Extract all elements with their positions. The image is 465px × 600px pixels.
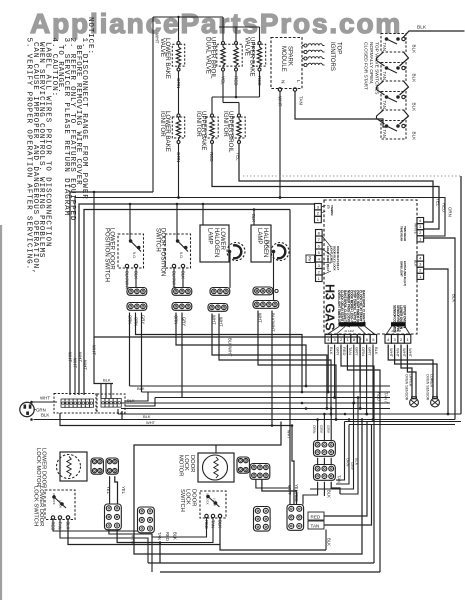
svg-text:N.O.: N.O.	[179, 252, 183, 259]
svg-text:TAN: TAN	[337, 475, 342, 483]
connector C12 door lock motor	[250, 464, 270, 480]
wire left drop from top bus	[152, 17, 154, 192]
svg-text:J2 14M: J2 14M	[391, 329, 401, 333]
label BLK on bus M7	[143, 414, 151, 419]
svg-text:WHT: WHT	[287, 485, 292, 495]
svg-text:N: N	[280, 80, 286, 84]
wire orn2 to bus	[136, 313, 304, 394]
svg-text:BLK: BLK	[173, 532, 178, 540]
connector C9 lower door lock motor	[91, 458, 103, 474]
svg-text:BLK: BLK	[266, 240, 271, 248]
wire halogen lamp down	[273, 253, 275, 301]
wires lower door lock connector down	[109, 529, 160, 572]
door lock assembly box	[134, 422, 362, 555]
resistor UPPER BROIL IGNITOR	[222, 111, 245, 153]
label WHT on bus M8	[146, 420, 156, 425]
svg-text:RED: RED	[342, 347, 347, 356]
svg-text:IGNITOR: IGNITOR	[159, 111, 166, 137]
keypad legend text block 2	[391, 305, 407, 333]
svg-text:GRY: GRY	[350, 462, 354, 471]
labels WHT YEL/RED middle	[287, 484, 299, 502]
label TOP VALVE SWITCHES NORMALLY OPEN CLOSED FOR START	[362, 42, 379, 94]
wire P6 pin1 right exit	[424, 269, 450, 415]
switch LOWER DOOR POSITION SWITCH	[104, 228, 144, 282]
labels WHT TAN RED BLK lower cluster	[131, 532, 178, 545]
svg-text:GRY: GRY	[367, 347, 372, 356]
spark module top ignitor outputs	[302, 44, 325, 67]
wire BLK switch to P4	[325, 530, 327, 551]
wire bus H3	[79, 204, 314, 395]
wires G to F	[318, 458, 332, 465]
svg-text:POSITION SWITCH: POSITION SWITCH	[104, 228, 110, 282]
switch top valve SW2	[381, 63, 406, 82]
wire orn3 to bus	[176, 313, 307, 388]
label GRN at power cord	[34, 408, 46, 413]
svg-text:VALVE: VALVE	[159, 38, 166, 57]
svg-text:TAN: TAN	[382, 130, 387, 138]
svg-text:GRY: GRY	[319, 425, 323, 434]
svg-text:WHT: WHT	[389, 348, 394, 358]
labels P2 pin functions	[322, 236, 340, 275]
svg-text:WHT: WHT	[73, 358, 78, 368]
sensor upper oven RT1	[410, 397, 419, 407]
wire wht vertical x290	[289, 210, 291, 506]
svg-text:RW: RW	[308, 256, 312, 261]
label BLK/WHT long	[228, 338, 233, 357]
svg-text:SWITCH: SWITCH	[155, 228, 161, 252]
labels wire colors under row2 lamp1	[212, 315, 224, 327]
wire chain SW1 to SW2	[377, 52, 409, 66]
wires F down	[303, 482, 340, 505]
svg-text:5. VERIFY PROPER OPERATION AFT: 5. VERIFY PROPER OPERATION AFTER SERVICI…	[25, 38, 33, 271]
control board outline H3 GAS	[324, 200, 417, 334]
svg-text:BLK: BLK	[374, 347, 379, 355]
svg-text:ORN: ORN	[345, 458, 349, 467]
svg-text:GRY: GRY	[355, 347, 360, 356]
svg-text:NORMALLY OPEN,: NORMALLY OPEN,	[368, 42, 374, 84]
label WHT near P4 feed	[287, 430, 291, 439]
label WHT top left wire	[155, 33, 160, 44]
svg-text:GRY: GRY	[326, 425, 330, 434]
wire dual valve tops	[223, 27, 236, 42]
wire top bus	[153, 17, 260, 27]
switch top valve SW1	[381, 34, 406, 53]
spark module U1	[271, 38, 302, 92]
fan lines keypad block 2 to J2	[386, 327, 410, 335]
label WHITE near P5	[414, 223, 418, 235]
wire long vertical x94	[93, 191, 96, 337]
svg-text:WHT: WHT	[278, 96, 283, 107]
svg-text:IGNITOR: IGNITOR	[222, 111, 229, 137]
connector ROW small box	[306, 255, 315, 263]
svg-text:HALOGEN: HALOGEN	[213, 228, 219, 257]
svg-text:LAMP: LAMP	[256, 228, 262, 244]
svg-text:YEL/RED: YEL/RED	[294, 484, 299, 502]
svg-text:WHITE: WHITE	[414, 223, 418, 235]
labels WHT on left vertical wires	[68, 345, 97, 370]
wires lower door position switch to connector	[127, 268, 136, 288]
wire J2 pin3 to upper oven sensor	[401, 345, 412, 399]
node top bus to lower bake valve	[177, 16, 179, 42]
wire bottom run 563	[148, 562, 374, 564]
labels P3 pin functions	[321, 205, 334, 215]
wires door lock switch out	[152, 518, 326, 550]
dotted fold line	[243, 175, 461, 177]
labels wire colors under row2 mid	[174, 315, 187, 326]
sensor lower oven RT2	[431, 397, 440, 407]
label BLK right of SW1	[412, 45, 417, 55]
svg-text:TIME REAR: TIME REAR	[400, 226, 404, 242]
svg-text:WHT: WHT	[78, 352, 83, 362]
wire bus M3	[155, 397, 390, 399]
valve UPPER BAKE VALVE	[244, 37, 266, 77]
svg-text:BLK: BLK	[412, 103, 417, 113]
wires bus to connector G	[318, 407, 333, 440]
wire red ignitor to right strip	[212, 144, 439, 230]
svg-text:IGNITORS: IGNITORS	[329, 42, 335, 71]
connector P4 middle	[287, 505, 304, 531]
lamp LOWER HALOGEN LAMP	[200, 225, 245, 262]
svg-text:BLK: BLK	[143, 414, 151, 419]
svg-text:BLK: BLK	[412, 74, 417, 84]
svg-text:WHT: WHT	[68, 352, 73, 362]
label BLK on tb wire	[137, 386, 145, 391]
svg-text:TAN: TAN	[382, 43, 387, 51]
label TOP IGNITORS	[329, 42, 342, 71]
labels ORN GRY near connector G feeds	[312, 425, 330, 434]
wire J1 pin4 TAN long to door lock	[347, 345, 380, 573]
label TAN box	[308, 521, 324, 529]
wire gry2 to bus	[181, 313, 183, 398]
svg-text:RED: RED	[377, 392, 382, 401]
wire wht1 to bus	[212, 314, 328, 410]
wires terminal block 2 right exits	[118, 392, 155, 420]
wire motor to box top	[215, 445, 217, 453]
wire J1 pin8 BLK to bus	[372, 345, 375, 421]
wire y337 run	[94, 337, 360, 392]
svg-text:ORN: ORN	[448, 207, 453, 217]
wire lower halogen lamp feed	[202, 203, 205, 225]
wire gry1 to bus	[141, 313, 143, 393]
svg-text:BLK: BLK	[103, 378, 111, 383]
svg-text:ORN: ORN	[361, 347, 366, 356]
wire J1 pin7 GRY to bus	[365, 345, 368, 416]
svg-text:LOWER: LOWER	[219, 228, 225, 251]
connector strip P2 left	[316, 230, 323, 282]
wire J2 pin4 to upper oven sensor	[407, 345, 416, 399]
svg-text:N.O.: N.O.	[132, 252, 136, 259]
connector C11 door lock motor	[237, 457, 249, 473]
connector P row2 lamp1	[208, 304, 228, 312]
wire bus H2 ORN to control	[75, 144, 445, 396]
junction dots on bus	[291, 402, 369, 427]
label H3 GAS	[323, 284, 337, 331]
svg-text:SPARK: SPARK	[287, 46, 293, 66]
connector P row2 lamp2	[253, 301, 279, 309]
watermark AppliancePartsPros.com	[30, 8, 402, 39]
labels YEL RED ORN at right wires	[436, 198, 453, 217]
resistor UPPER BAKE IGNITOR	[195, 111, 218, 151]
wire bus M2	[142, 391, 391, 393]
wires motor connectors YEL down	[110, 476, 118, 504]
connector C1 lower door position switch	[127, 288, 147, 296]
svg-text:MOTOR: MOTOR	[177, 455, 183, 476]
connector C7 lower door lock	[138, 507, 155, 533]
label ORN below lower bake valve	[176, 78, 181, 88]
svg-text:TAN: TAN	[382, 101, 387, 109]
svg-text:WHT: WHT	[287, 430, 291, 439]
svg-text:WHT: WHT	[83, 360, 88, 370]
svg-text:LOCK: LOCK	[59, 500, 63, 508]
label RED long wire	[377, 392, 382, 401]
wire lower bake valve to ignitor	[178, 71, 180, 114]
wire chain SW2 to SW3	[377, 81, 409, 95]
svg-text:SWITCH: SWITCH	[179, 489, 185, 512]
notes text block	[25, 17, 95, 275]
switch DOOR POSITION SWITCH	[155, 228, 191, 276]
wire bus M5	[121, 408, 390, 410]
svg-text:YEL: YEL	[106, 486, 111, 495]
svg-text:BLK: BLK	[329, 347, 334, 355]
svg-text:CLOSED FOR START: CLOSED FOR START	[362, 42, 368, 90]
wire door position switch feed	[176, 203, 179, 240]
connector strip P6 right bottom	[417, 255, 424, 279]
label BLK right edge wire	[452, 294, 457, 302]
wire yel ignitor to right strip	[239, 144, 433, 223]
connector C6 lower door lock	[105, 504, 122, 530]
svg-text:YEL: YEL	[121, 486, 126, 495]
label YEL below dual valve	[221, 76, 226, 85]
wires bus drop corners into door lock area	[310, 396, 359, 494]
labels P6 pin functions	[400, 261, 407, 286]
svg-text:J1 14M: J1 14M	[344, 329, 354, 333]
svg-text:TAN: TAN	[157, 532, 162, 540]
label WHT on spark N wire	[278, 96, 283, 107]
wire red junction to upper bake ignitor	[212, 71, 260, 114]
svg-text:WHT: WHT	[131, 535, 136, 545]
labels BLK/WHT BLK under lower door position switch	[125, 271, 139, 290]
keypad legend text block 1	[337, 290, 365, 327]
wire blkwht lamp2 down	[271, 311, 274, 427]
connector G above middle	[314, 441, 336, 457]
connector strip P5 right top	[417, 218, 424, 242]
svg-text:BLK: BLK	[412, 45, 417, 55]
svg-text:BLK/WHT: BLK/WHT	[228, 338, 233, 357]
svg-text:YEL: YEL	[236, 152, 241, 161]
wire lower halogen lamp down	[229, 253, 231, 288]
wire upper bake valve top	[259, 27, 261, 42]
svg-text:GRY: GRY	[335, 347, 340, 356]
labels RED TAN BLK under lower door lock switch	[51, 522, 71, 531]
connector C4 halogen lamp	[253, 287, 278, 295]
motor DOOR LOCK MOTOR	[177, 453, 234, 482]
wire wht2 to bus	[219, 314, 332, 416]
label RED below upper bake valve	[257, 76, 262, 86]
wire bus H4	[84, 210, 290, 396]
label UPPER OVEN SENSOR	[404, 374, 412, 401]
svg-text:LOCK: LOCK	[213, 498, 217, 506]
svg-text:WHT: WHT	[408, 348, 413, 358]
svg-text:BLK: BLK	[452, 294, 457, 302]
wire bus top right Y421	[345, 422, 462, 425]
connector C3 lower halogen lamp	[210, 288, 230, 296]
label BLK lower middle	[327, 538, 332, 546]
labels wire colors under row2 left	[128, 315, 146, 326]
wire wht lamp2 to bus	[258, 311, 337, 421]
labels BLK/WHT BLK under door position switch	[172, 271, 186, 290]
label BLK right of SW4	[412, 132, 417, 142]
valve LOWER BAKE VALVE	[159, 38, 185, 79]
wire bus M4	[121, 402, 390, 404]
svg-text:AppliancePartsPros.com: AppliancePartsPros.com	[30, 8, 402, 39]
svg-text:BLK: BLK	[417, 25, 427, 31]
wire chain SW3 to SW4	[377, 110, 409, 124]
svg-text:(?): (?)	[327, 205, 331, 209]
label BLK near P6	[414, 260, 418, 267]
wire BLK from SW1 to right edge	[404, 31, 465, 37]
svg-text:LOCK MOTOR: LOCK MOTOR	[35, 448, 41, 487]
label BLK inside lamp area	[266, 240, 271, 248]
connector strip P3 left top	[315, 204, 322, 223]
label BLK top right	[417, 25, 427, 31]
label BLK middle	[327, 475, 342, 498]
label WHT at power cord	[40, 396, 50, 401]
svg-text:YEL: YEL	[436, 198, 441, 207]
lamp HALOGEN LAMP	[251, 225, 289, 262]
wire bus M1	[130, 385, 391, 387]
connector P row2 mid	[172, 303, 192, 311]
connector C10 lower door lock motor	[106, 458, 118, 474]
wire power cord WHT to terminal block	[30, 401, 57, 421]
label BLK above terminal block 2	[103, 378, 111, 383]
labels wire colors under row2 lamp2	[258, 313, 276, 332]
svg-text:OVEN SENSOR: OVEN SENSOR	[425, 374, 429, 401]
svg-text:BLK: BLK	[137, 386, 145, 391]
svg-text:H3 GAS: H3 GAS	[323, 284, 337, 331]
svg-text:UNLOCK: UNLOCK	[52, 493, 56, 505]
switch LOWER DOOR LOCK SWITCH	[32, 486, 75, 526]
wire orn1 to bus	[129, 313, 131, 387]
svg-text:OVEN SENSOR: OVEN SENSOR	[404, 374, 408, 401]
wire bus M8 WHT	[60, 413, 292, 426]
labels YEL YEL	[106, 486, 126, 495]
svg-text:WHT: WHT	[155, 33, 160, 44]
svg-text:BLK/WHT: BLK/WHT	[271, 313, 276, 332]
labels ORN GRY BLK on bus drop corners	[345, 458, 358, 471]
wire J1 pin5 GRY to bus	[352, 345, 355, 405]
svg-text:LAMP: LAMP	[207, 228, 213, 244]
label RED box	[308, 512, 324, 520]
label RED below upper bake ignitor	[209, 152, 214, 162]
svg-text:BLK: BLK	[327, 490, 332, 498]
label YEL below upper broil ignitor	[236, 152, 241, 161]
label RED below dual valve	[234, 76, 239, 86]
labels J1 fanout colors	[329, 347, 379, 356]
wire blkwht vertical x292	[292, 426, 294, 506]
svg-text:RED: RED	[311, 514, 321, 519]
connector P row2 left	[127, 303, 147, 311]
svg-text:IGNITOR: IGNITOR	[195, 111, 202, 137]
wire yel to upper broil ignitor	[223, 71, 239, 114]
label ORN below lower bake ignitor	[176, 152, 181, 162]
wire J1 pin3 RED long to door lock	[341, 345, 374, 564]
label TAN long wire	[384, 392, 389, 403]
svg-text:MODULE: MODULE	[280, 46, 286, 72]
wire J1 pin2 GRY to bus	[333, 345, 336, 399]
power cord plug	[20, 402, 34, 416]
label BLK right of SW3	[412, 103, 417, 113]
left page edge artifact	[0, 225, 2, 600]
svg-text:ORN: ORN	[312, 425, 316, 434]
switch DOOR LOCK SWITCH	[179, 489, 226, 518]
svg-text:BLK: BLK	[251, 214, 256, 222]
wires RED TAN boxes to right	[324, 422, 372, 526]
svg-text:WHT: WHT	[146, 420, 156, 425]
wire J2 pin1 to lower oven sensor	[388, 345, 433, 399]
wire spark module N down	[279, 91, 282, 199]
svg-text:BLK: BLK	[354, 458, 358, 466]
svg-text:DWB LIGHT: DWB LIGHT	[400, 261, 404, 277]
connector F middle	[314, 465, 336, 481]
wire J2 pin2 to lower oven sensor	[395, 345, 437, 399]
svg-text:BLK: BLK	[41, 413, 49, 418]
fan lines keypad block 1 to J1	[327, 327, 375, 335]
wires door position switch to connector	[174, 268, 183, 288]
svg-text:WHT: WHT	[40, 396, 50, 401]
connector C2 door position switch	[172, 288, 192, 296]
labels RED TAN BLK under door lock switch	[204, 520, 223, 529]
svg-text:RED: RED	[165, 532, 170, 541]
valve UPPER BROIL DUAL VALVE	[205, 37, 243, 79]
svg-text:LIGHT (CMD) (N) LT: LIGHT (CMD) (N) LT	[326, 246, 330, 272]
svg-text:WHT: WHT	[402, 348, 407, 358]
svg-text:UNLOCK: UNLOCK	[206, 493, 210, 505]
wire bottom run 572	[160, 571, 380, 573]
svg-text:WHT: WHT	[395, 348, 400, 358]
switch top valve SW4	[381, 121, 406, 140]
wire dotted fold down right edge	[460, 176, 462, 414]
wire bus M7 BLK from power cord	[34, 419, 456, 421]
svg-text:TOP: TOP	[336, 42, 342, 54]
svg-text:TAN: TAN	[299, 96, 304, 105]
labels J2 fanout WHT	[389, 348, 413, 358]
svg-text:OVEN LIGHT TIMER OFF: OVEN LIGHT TIMER OFF	[337, 290, 341, 325]
svg-text:VALVE: VALVE	[244, 37, 251, 56]
wires C12 down to P4	[256, 479, 297, 505]
svg-text:TAN: TAN	[382, 72, 387, 80]
terminal block TB1	[54, 394, 96, 414]
wires into terminal block 2 from above	[94, 337, 113, 399]
wire bus M6	[118, 413, 461, 415]
wire J1 pin6 ORN to bus	[359, 345, 362, 410]
label TAN on spark L wire	[299, 96, 304, 105]
wire P5 pin1 to right edge	[424, 238, 455, 420]
label BLK at power cord	[41, 413, 49, 418]
svg-text:LOCK SWITCH: LOCK SWITCH	[32, 486, 38, 526]
svg-text:BLK: BLK	[412, 132, 417, 142]
terminal block TB2	[97, 394, 125, 413]
connector strip J2	[385, 329, 411, 343]
resistor LOWER BAKE IGNITOR	[159, 111, 185, 152]
wire lower door position switch feed	[129, 203, 132, 240]
wire halogen lamp feed BLK	[251, 208, 256, 225]
connector P7 middle	[254, 507, 271, 532]
labels P5 pin functions	[400, 226, 407, 242]
svg-text:RED: RED	[442, 203, 447, 212]
svg-text:TAN: TAN	[311, 523, 320, 528]
label BLK right of SW2	[412, 74, 417, 84]
wire spark module L to SW4	[295, 91, 387, 127]
